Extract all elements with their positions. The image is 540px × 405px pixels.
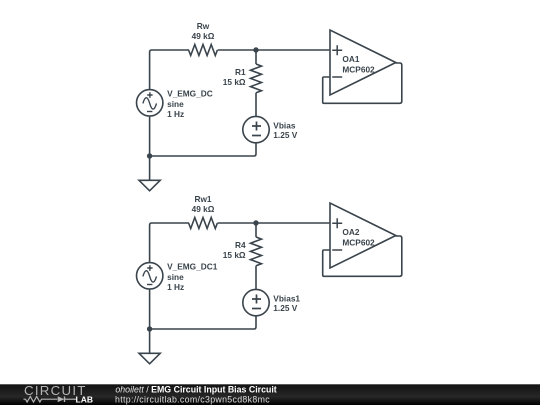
svg-text:1 Hz: 1 Hz — [167, 109, 184, 119]
svg-text:http://circuitlab.com/c3pwn5cd: http://circuitlab.com/c3pwn5cd8k8mc — [115, 395, 270, 405]
svg-text:1.25 V: 1.25 V — [273, 130, 297, 140]
svg-text:Vbias: Vbias — [273, 121, 296, 131]
svg-text:V_EMG_DC1: V_EMG_DC1 — [167, 261, 218, 271]
svg-text:OA2: OA2 — [342, 227, 359, 237]
svg-text:sine: sine — [167, 99, 184, 109]
svg-text:49 kΩ: 49 kΩ — [192, 31, 215, 41]
svg-text:R1: R1 — [235, 67, 246, 77]
svg-text:Rw: Rw — [197, 21, 210, 31]
svg-text:sine: sine — [167, 272, 184, 282]
svg-text:1.25 V: 1.25 V — [273, 303, 297, 313]
svg-text:OA1: OA1 — [342, 54, 359, 64]
svg-text:49 kΩ: 49 kΩ — [192, 204, 215, 214]
svg-text:15 kΩ: 15 kΩ — [223, 77, 246, 87]
svg-text:Rw1: Rw1 — [194, 194, 211, 204]
svg-text:15 kΩ: 15 kΩ — [223, 250, 246, 260]
svg-text:MCP602: MCP602 — [342, 238, 375, 248]
svg-text:1 Hz: 1 Hz — [167, 282, 184, 292]
svg-text:LAB: LAB — [76, 395, 93, 405]
svg-text:R4: R4 — [235, 240, 246, 250]
svg-text:MCP602: MCP602 — [342, 65, 375, 75]
svg-text:ohoilett / EMG Circuit Input B: ohoilett / EMG Circuit Input Bias Circui… — [115, 385, 276, 395]
svg-text:V_EMG_DC: V_EMG_DC — [167, 88, 213, 98]
svg-text:Vbias1: Vbias1 — [273, 294, 300, 304]
